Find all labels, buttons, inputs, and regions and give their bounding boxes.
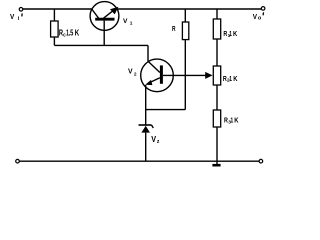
svg-text:2: 2 (134, 71, 137, 77)
wire bottom rail (20, 160, 260, 162)
wire Rc bottom stub (53, 37, 55, 45)
wire Rc top stub (53, 9, 55, 21)
svg-text:1: 1 (229, 75, 232, 83)
wire R bottom drop (184, 40, 186, 110)
transistor V2 collector lead (148, 61, 160, 72)
wire V1 base drop (103, 21, 105, 46)
resistor R2 (213, 66, 220, 85)
wire R1-R2 link (216, 39, 218, 66)
transistor V2 circle (141, 59, 174, 92)
svg-text:K: K (233, 75, 237, 83)
resistor R1 (213, 19, 220, 39)
label R2 1K (223, 75, 238, 83)
transistor V1 collector lead (92, 9, 99, 18)
terminal bottom-left (16, 159, 20, 163)
svg-text:1: 1 (130, 21, 133, 27)
label Vz (151, 134, 160, 144)
wire R top stub (184, 9, 186, 22)
svg-text:K: K (234, 117, 238, 125)
svg-text:R: R (172, 26, 176, 33)
wire top rail left segment (23, 8, 92, 10)
svg-text:V: V (253, 14, 258, 21)
label Rc 1.5K (59, 29, 80, 39)
svg-text:K: K (75, 29, 80, 38)
svg-text:1: 1 (229, 30, 232, 38)
svg-text:K: K (233, 30, 237, 38)
label Vi' (10, 13, 22, 22)
terminal Vi' (19, 8, 23, 12)
resistor Rc (51, 21, 59, 37)
svg-text:5: 5 (70, 30, 73, 38)
label V1 (123, 18, 133, 27)
svg-text:o: o (258, 16, 262, 22)
label V2 (128, 69, 137, 78)
wire zener bottom drop (145, 133, 147, 161)
wire zener top stub (145, 110, 147, 125)
transistor V1 emitter lead with arrow (104, 7, 119, 18)
wire top rail right segment (118, 8, 262, 10)
transistor V2 emitter lead with arrow (145, 78, 160, 85)
ground (212, 161, 220, 165)
wire V2 collector drop (147, 45, 149, 61)
svg-text:V: V (10, 14, 15, 21)
transistor V2 base bar (160, 65, 163, 83)
svg-text:1: 1 (230, 117, 233, 125)
terminal bottom-right (259, 159, 263, 163)
svg-text:V: V (128, 69, 133, 76)
resistor R (182, 22, 188, 40)
wire R1 top stub (216, 9, 218, 19)
label R1 1K (223, 30, 237, 39)
resistor R3 (213, 110, 220, 127)
wire V2 emitter drop (145, 85, 147, 110)
transistor V1 base bar (95, 18, 114, 21)
terminal Vo' (261, 7, 265, 11)
svg-text:V: V (123, 18, 128, 25)
label R3 1K (224, 117, 239, 125)
wire base bias (horizontal y=45.4) (54, 44, 148, 46)
label Vo' (253, 12, 264, 21)
wire R3 bottom drop (216, 127, 218, 161)
wire R2-R3 link (216, 85, 218, 110)
svg-text:c: c (63, 32, 66, 39)
wire V2 base lead to potentiometer arrow (163, 72, 213, 79)
transistor V1 circle (90, 2, 119, 31)
wire emitter to R bottom (horizontal y=109.6) (146, 109, 186, 111)
zener diode Vz (139, 125, 154, 133)
